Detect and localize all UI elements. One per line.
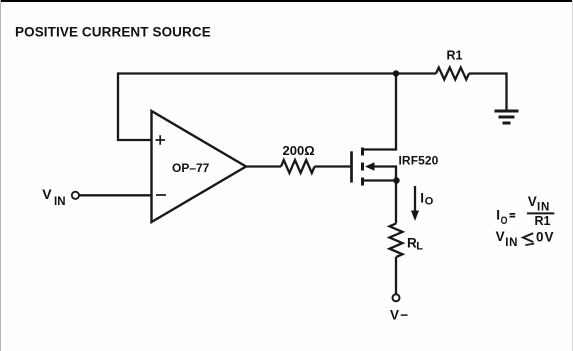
svg-text:I: I [420, 190, 424, 205]
svg-text:POSITIVE CURRENT SOURCE: POSITIVE CURRENT SOURCE [15, 25, 211, 40]
svg-text:IN: IN [537, 202, 550, 214]
svg-text:R1: R1 [535, 214, 551, 228]
svg-text:OP–77: OP–77 [172, 161, 210, 175]
svg-text:0V: 0V [536, 229, 555, 244]
svg-text:V: V [496, 229, 505, 244]
svg-text:O: O [501, 215, 508, 227]
svg-text:V: V [528, 194, 537, 209]
svg-text:200Ω: 200Ω [283, 143, 315, 158]
svg-text:IN: IN [54, 196, 66, 208]
svg-text:R1: R1 [447, 49, 463, 63]
svg-text:L: L [416, 241, 423, 253]
svg-text:O: O [425, 195, 434, 207]
svg-text:I: I [496, 208, 500, 223]
svg-text:IN: IN [505, 237, 518, 249]
svg-text:V: V [42, 186, 52, 202]
svg-text:V−: V− [390, 307, 409, 322]
svg-text:IRF520: IRF520 [399, 154, 439, 168]
